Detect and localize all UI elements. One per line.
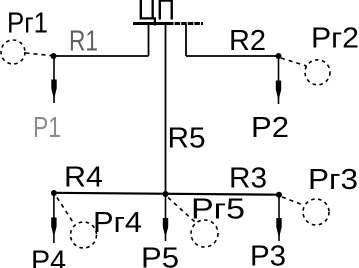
- svg-text:Рг5: Рг5: [191, 194, 245, 226]
- load arrow P3: [276, 195, 281, 241]
- wire busbar drop left: [148, 24, 150, 56]
- svg-text:Рг2: Рг2: [311, 23, 359, 55]
- switch Рг2 circle: [305, 60, 330, 85]
- svg-text:P4: P4: [31, 246, 66, 268]
- wire feeder R5 vertical: [165, 24, 167, 194]
- switch Рг4 circle: [71, 222, 97, 248]
- svg-text:R1: R1: [69, 26, 98, 58]
- svg-text:Рг3: Рг3: [308, 164, 358, 196]
- wire dashed link to Рг1: [26, 53, 52, 56]
- wire bottom bus R4-R3: [54, 193, 279, 195]
- wire dashed link to Рг3: [282, 197, 305, 206]
- wire dashed link to Рг4: [57, 198, 74, 224]
- svg-text:P3: P3: [250, 241, 286, 268]
- wire dashed link to Рг2: [281, 58, 307, 66]
- node 1 junction: [51, 53, 57, 59]
- node CP busbar: [133, 22, 168, 25]
- node 3 junction: [276, 192, 282, 198]
- switch Рг5 circle: [191, 220, 218, 247]
- switch Рг1 circle: [1, 40, 25, 64]
- svg-text:R4: R4: [64, 162, 103, 194]
- node 4 junction: [51, 190, 57, 196]
- wire feeder R2: [186, 55, 279, 57]
- load arrow P4: [51, 193, 56, 243]
- load arrow P1: [51, 56, 56, 103]
- wire busbar drop right: [185, 24, 187, 56]
- svg-text:P1: P1: [33, 112, 61, 144]
- switch Рг3 circle: [303, 199, 329, 225]
- svg-text:P5: P5: [141, 242, 179, 268]
- svg-text:ЦП: ЦП: [138, 0, 176, 27]
- load arrow P5: [163, 194, 168, 241]
- svg-text:R2: R2: [229, 25, 266, 57]
- svg-text:Рг1: Рг1: [7, 8, 48, 40]
- load arrow P2: [276, 56, 281, 104]
- node 2 junction: [276, 53, 282, 59]
- node 5 junction: [163, 191, 169, 197]
- svg-text:P2: P2: [251, 112, 289, 144]
- svg-text:R5: R5: [168, 123, 206, 155]
- svg-text:Рг4: Рг4: [93, 207, 142, 239]
- wire dashed link to Рг5: [168, 198, 195, 222]
- svg-text:R3: R3: [229, 163, 267, 195]
- wire feeder R1: [54, 55, 149, 57]
